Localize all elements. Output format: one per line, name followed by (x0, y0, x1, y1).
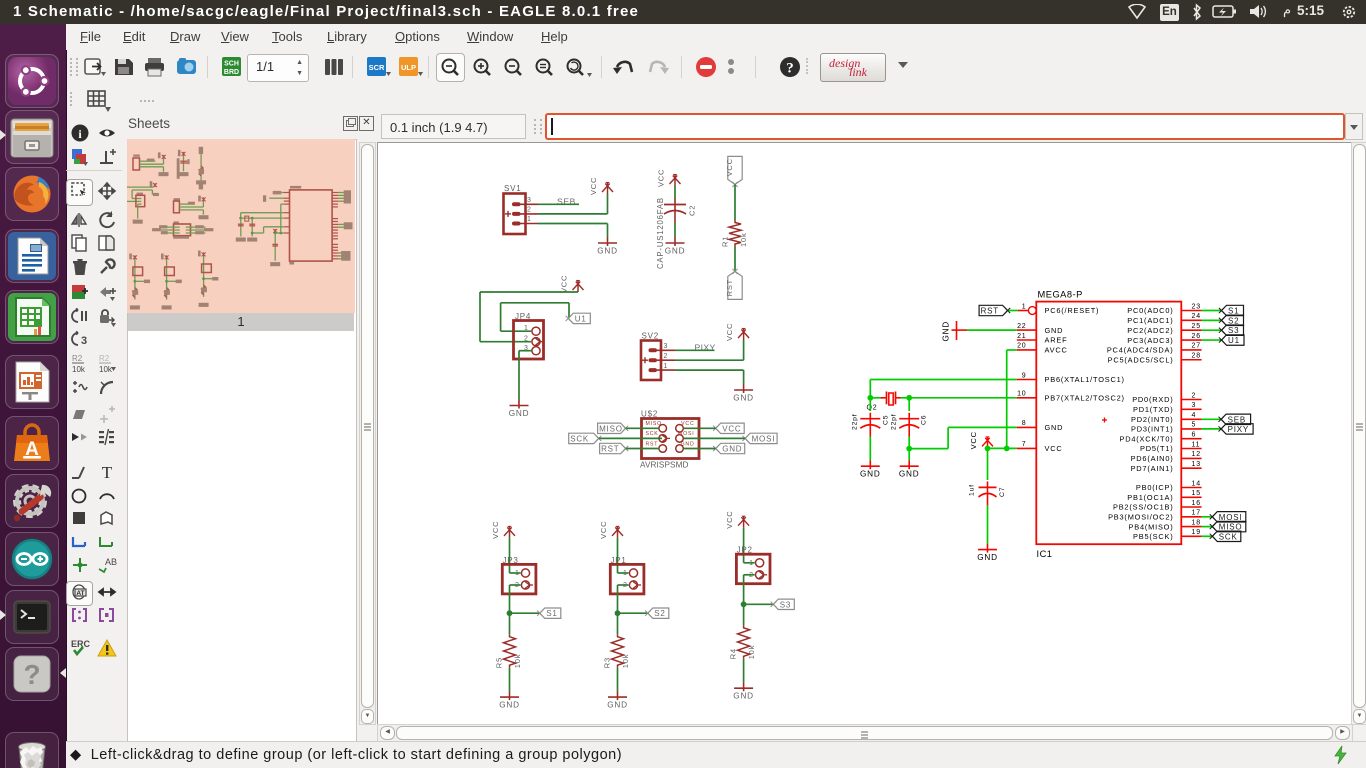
net flag S1 (537, 608, 561, 618)
wire (901, 397, 910, 399)
svg-text:S2: S2 (1228, 316, 1239, 325)
toolbar ULP (398, 56, 420, 78)
palette split (70, 404, 90, 424)
svg-text:26: 26 (1192, 333, 1201, 340)
toolbar print (144, 56, 166, 78)
palette ERC (70, 638, 90, 658)
svg-text:4: 4 (1192, 412, 1197, 419)
svg-text:GND: GND (1045, 326, 1064, 335)
palette info (70, 123, 90, 143)
wire (1202, 319, 1222, 321)
ground (899, 460, 920, 479)
wire (987, 448, 989, 480)
wire junction (867, 395, 873, 401)
wire (743, 370, 745, 384)
svg-text:C7: C7 (999, 487, 1006, 497)
resistor R5 (504, 634, 516, 668)
palette circle (70, 486, 90, 506)
wire (618, 584, 629, 586)
launcher icon Arduino IDE (5, 532, 59, 586)
svg-text:RST: RST (725, 279, 734, 296)
svg-text:VCC: VCC (725, 323, 734, 341)
grid button (86, 89, 112, 113)
Unity launcher (0, 24, 67, 768)
svg-text:MISO: MISO (599, 424, 623, 433)
svg-text:1: 1 (524, 325, 529, 332)
wire (908, 449, 910, 461)
wire (626, 427, 659, 429)
launcher icon LibreOffice Impress (5, 355, 59, 409)
svg-text:1: 1 (1022, 303, 1027, 310)
palette value (97, 353, 117, 373)
svg-text:IC1: IC1 (1037, 549, 1053, 559)
wire (683, 427, 715, 429)
svg-text:VCC: VCC (722, 424, 741, 433)
svg-text:GND: GND (499, 701, 520, 710)
status lightning (1332, 745, 1350, 765)
svg-text:2: 2 (1192, 392, 1197, 399)
resistor R1 (729, 220, 741, 247)
capacitor (860, 413, 880, 437)
palette junction (70, 555, 90, 575)
svg-text:PD4(XCK/T0): PD4(XCK/T0) (1120, 434, 1174, 443)
svg-text:27: 27 (1192, 343, 1201, 350)
wire (869, 380, 871, 398)
IC U1 MEGA8-P (IC1) (1017, 290, 1202, 560)
svg-text:GND: GND (977, 553, 998, 562)
palette frame2 (97, 605, 117, 625)
net flag MISO left of U$2 (598, 423, 629, 433)
wire (518, 351, 520, 400)
svg-text:C6: C6 (921, 415, 928, 425)
connector SV1 (504, 184, 539, 234)
net flag RST below R1 (725, 269, 742, 300)
wire (599, 437, 662, 439)
panel float button (343, 116, 358, 131)
wire (674, 186, 676, 199)
wire junction (906, 446, 912, 452)
svg-text:RST: RST (601, 445, 619, 454)
svg-text:ERC: ERC (71, 639, 90, 649)
svg-text:RST: RST (981, 307, 999, 316)
palette optimize (97, 404, 117, 424)
net flag VCC above R1 (725, 156, 742, 187)
svg-text:GND: GND (665, 247, 686, 256)
wire AVCC riser (1006, 350, 1008, 448)
palette smash (70, 377, 90, 397)
VCC supply symbol (969, 431, 993, 449)
wire (987, 505, 989, 543)
wire (908, 437, 910, 449)
net flag MOSI at IC1 (1210, 512, 1246, 522)
sheet spinbox (247, 54, 309, 82)
svg-text:28: 28 (1192, 353, 1201, 360)
wire (744, 574, 755, 576)
wire (1202, 329, 1222, 331)
VCC supply symbol (560, 275, 584, 293)
wire to U1 flag (501, 302, 569, 304)
palette text (97, 462, 117, 482)
launcher icon LibreOffice Writer (5, 229, 59, 283)
component U$2 AVRISPSMD (640, 410, 699, 470)
svg-text:SCK: SCK (646, 431, 659, 437)
launcher icon LibreOffice Calc (5, 290, 59, 344)
palette mark (97, 147, 117, 167)
bluetooth icon (1191, 3, 1203, 21)
svg-text:PB3(MOSI/OC2): PB3(MOSI/OC2) (1108, 513, 1173, 522)
svg-text:T: T (102, 463, 113, 482)
wire (1202, 339, 1222, 341)
wire junction (741, 601, 747, 607)
svg-text:BRD: BRD (224, 69, 239, 76)
wire (947, 427, 949, 448)
wire XTAL1 to pin9 (870, 379, 1017, 381)
wire pin22 GND (967, 329, 1017, 331)
svg-text:22pf: 22pf (891, 414, 898, 430)
wire (869, 398, 871, 411)
svg-text:PD2(INT0): PD2(INT0) (1131, 415, 1174, 424)
wire (674, 223, 676, 238)
toolbar open/export (84, 56, 106, 78)
svg-text:PC2(ADC2): PC2(ADC2) (1127, 326, 1173, 335)
svg-text:GND: GND (1045, 423, 1064, 432)
svg-text:6: 6 (1192, 432, 1197, 439)
svg-text:2: 2 (527, 207, 532, 214)
wire (618, 612, 648, 614)
ground (509, 400, 530, 419)
wire VCC rail JP4 (480, 291, 578, 293)
svg-text:PC3(ADC3): PC3(ADC3) (1127, 336, 1173, 345)
wire (743, 528, 745, 563)
palette copy (70, 233, 90, 253)
toolbar SCH/BRD (221, 56, 243, 78)
wire (1007, 349, 1017, 351)
wire (617, 585, 619, 613)
svg-text:MOSI: MOSI (752, 434, 776, 443)
svg-text:VCC: VCC (657, 169, 666, 187)
svg-text:PD6(AIN0): PD6(AIN0) (1131, 454, 1174, 463)
VCC supply symbol (725, 323, 749, 341)
resistor R3 (612, 634, 624, 668)
svg-text:2: 2 (664, 353, 669, 360)
svg-text:PC0(ADC0): PC0(ADC0) (1127, 306, 1173, 315)
launcher icon Files (5, 110, 59, 164)
wire SV1 pin1 to GND (538, 223, 608, 225)
launcher icon Ubuntu (5, 54, 59, 108)
launcher icon Trash (5, 732, 59, 768)
wire XTAL2 to pin10 (909, 397, 1017, 399)
svg-text:PB0(ICP): PB0(ICP) (1136, 483, 1174, 492)
command input (545, 113, 1345, 140)
svg-text:10k: 10k (739, 233, 748, 248)
svg-text:SV2: SV2 (642, 332, 660, 341)
svg-text:1: 1 (527, 216, 532, 223)
svg-text:PD1(TXD): PD1(TXD) (1133, 405, 1173, 414)
EAGLE menu bar (66, 24, 1366, 50)
connector SV2 (641, 332, 675, 381)
svg-text:VCC: VCC (589, 177, 598, 195)
svg-text:12: 12 (1192, 451, 1201, 458)
svg-text:3: 3 (664, 343, 669, 350)
svg-text:PC5(ADC5/SCL): PC5(ADC5/SCL) (1108, 355, 1174, 364)
palette group select (70, 181, 90, 201)
svg-text:PC6(/RESET): PC6(/RESET) (1045, 306, 1100, 315)
svg-text:8: 8 (1022, 420, 1027, 427)
wire (607, 224, 609, 238)
wire (743, 604, 745, 625)
wire (1202, 418, 1222, 420)
svg-text:PD0(RXD): PD0(RXD) (1132, 395, 1173, 404)
Sheets panel (127, 113, 355, 741)
svg-text:PB7(XTAL2/TOSC2): PB7(XTAL2/TOSC2) (1045, 394, 1125, 403)
launcher icon Ubuntu Software (5, 416, 59, 470)
capacitor (979, 481, 997, 505)
toolbar stop (695, 56, 717, 78)
toolbar zoom-fit (active) (436, 53, 465, 82)
wire junction (906, 395, 912, 401)
svg-text:S1: S1 (1228, 307, 1239, 316)
svg-text:PD7(AIN1): PD7(AIN1) (1131, 464, 1174, 473)
palette paste (97, 233, 117, 253)
svg-text:CAP-US1206FAB: CAP-US1206FAB (656, 197, 665, 269)
svg-text:SCK: SCK (570, 434, 589, 443)
svg-text:S1: S1 (546, 609, 557, 618)
wire (617, 613, 619, 634)
toolbar redo (646, 56, 668, 78)
svg-text:R3: R3 (603, 657, 612, 668)
wire (1202, 428, 1222, 430)
coordinate display (381, 114, 526, 139)
toolbar zoom select (534, 57, 556, 79)
svg-text:PC4(ADC4/SDA): PC4(ADC4/SDA) (1107, 346, 1174, 355)
net flag S2 (645, 608, 669, 618)
palette arc (97, 486, 117, 506)
svg-text:11: 11 (1192, 441, 1201, 448)
wire (743, 659, 745, 682)
svg-text:22: 22 (1017, 323, 1026, 330)
palette attributes (97, 427, 117, 447)
svg-text:PB6(XTAL1/TOSC1): PB6(XTAL1/TOSC1) (1045, 375, 1125, 384)
net flag SCK left of U$2 (569, 433, 602, 443)
svg-text:SV1: SV1 (504, 184, 522, 193)
wire (1202, 535, 1213, 537)
svg-text:PC1(ADC1): PC1(ADC1) (1127, 316, 1173, 325)
design link dropdown (898, 62, 908, 68)
Ubuntu top panel (0, 0, 1366, 24)
ground (607, 691, 628, 710)
palette gateswap (70, 330, 90, 350)
palette move (97, 181, 117, 201)
net flag U1 at IC1 (1219, 335, 1244, 345)
svg-text:9: 9 (1022, 372, 1027, 379)
VCC supply symbol (491, 521, 515, 539)
status bar (66, 741, 1366, 768)
toolbar library (323, 56, 345, 78)
svg-text:AVCC: AVCC (1045, 346, 1068, 355)
svg-text:R5: R5 (495, 657, 504, 668)
svg-text:VCC: VCC (725, 510, 734, 528)
svg-text:GND: GND (942, 321, 951, 342)
svg-text:25: 25 (1192, 323, 1201, 330)
wire R1 to RST (734, 247, 736, 272)
ground (733, 384, 754, 403)
svg-text:21: 21 (1017, 333, 1026, 340)
svg-text:GND: GND (607, 701, 628, 710)
svg-text:PB4(MISO): PB4(MISO) (1129, 522, 1174, 531)
svg-text:MOSI: MOSI (678, 431, 694, 437)
svg-text:19: 19 (1192, 529, 1201, 536)
VCC supply symbol (599, 521, 623, 539)
svg-text:AB: AB (105, 557, 117, 567)
wire SV2 pin2 to VCC (675, 359, 744, 361)
palette errors (97, 638, 117, 658)
svg-text:10: 10 (1017, 391, 1026, 398)
palette net (97, 532, 117, 552)
wire (683, 437, 745, 439)
palette global attr (70, 582, 90, 602)
svg-text:R2: R2 (99, 354, 110, 363)
palette delete (70, 257, 90, 277)
svg-text:PB5(SCK): PB5(SCK) (1133, 532, 1174, 541)
svg-text:S2: S2 (654, 609, 665, 618)
svg-text:PD5(T1): PD5(T1) (1140, 444, 1174, 453)
palette show (97, 123, 117, 143)
svg-text:R1: R1 (721, 236, 730, 247)
wire junction (615, 610, 621, 616)
palette miter (97, 377, 117, 397)
svg-text:R2: R2 (72, 354, 83, 363)
connector JP4 (514, 312, 544, 359)
command dropdown (1345, 113, 1363, 140)
svg-text:22pf: 22pf (852, 414, 859, 430)
svg-text:18: 18 (1192, 519, 1201, 526)
svg-text:3: 3 (81, 335, 87, 347)
net flag RST left of U$2 (600, 443, 629, 453)
palette lock (97, 307, 117, 327)
capacitor (664, 199, 686, 223)
svg-text:VCC: VCC (969, 431, 978, 449)
ground (597, 237, 618, 256)
sheet 1 bar (128, 313, 354, 331)
svg-text:S3: S3 (1228, 326, 1239, 335)
svg-text:ULP: ULP (401, 63, 416, 72)
wire (908, 398, 910, 411)
net flag SCK at IC1 (1210, 531, 1241, 541)
svg-text:PB2(SS/OC1B): PB2(SS/OC1B) (1113, 503, 1174, 512)
svg-text:14: 14 (1192, 480, 1201, 487)
horizontal scrollbar (377, 724, 1353, 742)
wire PIXY net (675, 349, 715, 351)
net flag MISO at IC1 (1210, 521, 1246, 531)
svg-text:?: ? (23, 659, 40, 690)
svg-text:VCC: VCC (1045, 444, 1063, 453)
wire (1202, 526, 1213, 528)
ground (860, 460, 881, 479)
svg-text:10k: 10k (513, 654, 522, 669)
svg-text:SCH: SCH (224, 61, 239, 68)
wire (617, 538, 619, 573)
svg-text:13: 13 (1192, 461, 1201, 468)
svg-text:MISO: MISO (1219, 523, 1243, 532)
wire (743, 575, 745, 605)
running arrow Terminal (0, 610, 6, 620)
svg-text:GND: GND (597, 247, 618, 256)
palette polygon (97, 508, 117, 528)
toolbar undo (612, 56, 634, 78)
svg-text:SCK: SCK (1219, 532, 1238, 541)
palette replace (70, 307, 90, 327)
wire (568, 303, 570, 318)
net flag S3 (771, 599, 795, 609)
palette dimension (97, 582, 117, 602)
svg-text:15: 15 (1192, 490, 1201, 497)
palette wire (70, 462, 90, 482)
wire (744, 603, 774, 605)
svg-text:PD3(INT1): PD3(INT1) (1131, 425, 1174, 434)
wire (510, 584, 521, 586)
net flag RST at IC1 (979, 305, 1010, 315)
svg-text:GND: GND (899, 470, 920, 479)
vertical scrollbar (1351, 142, 1366, 725)
svg-text:S3: S3 (780, 600, 791, 609)
svg-text:10k: 10k (747, 645, 756, 660)
wire SV1 pin2 to VCC (538, 213, 608, 215)
svg-text:23: 23 (1192, 303, 1201, 310)
wire to JP4 pin2 (480, 341, 531, 343)
svg-text:?: ? (786, 61, 794, 77)
wire junction (507, 610, 513, 616)
svg-text:U1: U1 (1228, 336, 1240, 345)
wire VCC to R1 (734, 184, 736, 220)
svg-text:VCC: VCC (599, 521, 608, 539)
focused arrow Help (60, 668, 66, 678)
svg-text:24: 24 (1192, 313, 1201, 320)
volume icon (1248, 4, 1268, 20)
resistor R4 (738, 625, 750, 659)
wire junction (985, 446, 991, 452)
ground (977, 544, 998, 563)
svg-text:2: 2 (524, 336, 529, 343)
palette rect (70, 508, 90, 528)
network indicator (1283, 2, 1291, 18)
svg-text:Q2: Q2 (867, 405, 878, 412)
net flag S1 at IC1 (1219, 305, 1244, 315)
wire (607, 194, 609, 214)
wire (1202, 310, 1222, 312)
wire to JP4 pin1 (501, 330, 531, 332)
svg-text:10k: 10k (621, 654, 630, 669)
wire SV2 pin1 to GND (675, 369, 744, 371)
wire (509, 585, 511, 613)
svg-text:C5: C5 (883, 415, 890, 425)
wire (743, 340, 745, 360)
wire (510, 572, 521, 574)
net flag S2 at IC1 (1219, 315, 1244, 325)
palette select (active) (66, 179, 93, 206)
launcher icon Firefox (5, 167, 59, 221)
toolbar zoom out (503, 57, 525, 79)
svg-text:R4: R4 (729, 648, 738, 659)
ground (733, 682, 754, 701)
wire (909, 448, 948, 450)
wire (510, 612, 540, 614)
running arrow Files (0, 130, 6, 140)
svg-text:AT: AT (76, 590, 84, 597)
net flag U1 at JP4 (566, 313, 591, 323)
wire JP4 pin3 (519, 350, 532, 352)
palette mirror (70, 210, 90, 230)
wire SEB net (538, 203, 579, 205)
